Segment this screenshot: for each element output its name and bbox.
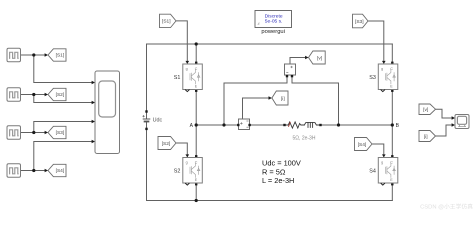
- svg-text:S2: S2: [174, 168, 181, 174]
- svg-text:Udc = 100V: Udc = 100V: [262, 159, 301, 168]
- svg-text:g: g: [381, 160, 383, 164]
- svg-text:[v]: [v]: [317, 56, 322, 62]
- svg-text:5Ω, 2e-3H: 5Ω, 2e-3H: [293, 136, 316, 142]
- svg-text:S1: S1: [174, 75, 181, 81]
- svg-text:g: g: [186, 160, 188, 164]
- svg-text:g: g: [381, 67, 383, 71]
- svg-text:C: C: [195, 160, 198, 164]
- svg-text:[S2]: [S2]: [56, 92, 65, 98]
- svg-text:C: C: [195, 67, 198, 71]
- svg-text:S4: S4: [369, 168, 376, 174]
- svg-text:C: C: [390, 160, 393, 164]
- svg-text:[S3]: [S3]: [355, 19, 364, 25]
- svg-text:R = 5Ω: R = 5Ω: [262, 167, 286, 176]
- svg-text:Discrete: Discrete: [265, 14, 283, 20]
- svg-text:[v]: [v]: [423, 107, 428, 113]
- svg-text:powergui: powergui: [261, 29, 285, 35]
- svg-text:C: C: [390, 67, 393, 71]
- svg-text:S3: S3: [369, 75, 376, 81]
- svg-text:[S3]: [S3]: [56, 130, 65, 136]
- svg-text:[S4]: [S4]: [56, 168, 65, 174]
- svg-text:[S1]: [S1]: [56, 53, 65, 59]
- svg-text:[S2]: [S2]: [162, 141, 171, 147]
- svg-text:Udc: Udc: [153, 117, 163, 123]
- svg-text:5e-05 s.: 5e-05 s.: [265, 19, 283, 25]
- svg-text:[S4]: [S4]: [358, 142, 367, 148]
- svg-text:[i]: [i]: [424, 134, 428, 140]
- svg-text:[S1]: [S1]: [162, 19, 171, 25]
- svg-text:[i]: [i]: [281, 96, 285, 102]
- svg-text:CSDN @小王学仿真: CSDN @小王学仿真: [420, 203, 473, 211]
- svg-text:g: g: [186, 67, 188, 71]
- svg-text:L = 2e-3H: L = 2e-3H: [262, 176, 294, 185]
